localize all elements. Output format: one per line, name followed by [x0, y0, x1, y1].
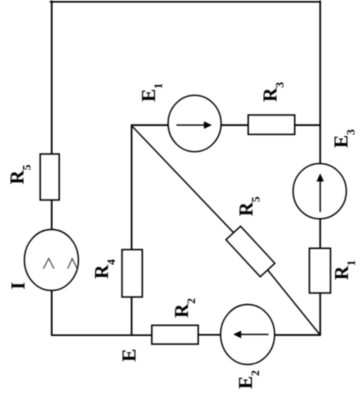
- svg-text:I: I: [9, 282, 30, 290]
- resistor R5 (diagonal): [226, 226, 275, 277]
- resistor R5 (left): [40, 154, 59, 200]
- svg-text:R5: R5: [237, 196, 263, 216]
- wire right upper: [319, 0, 321, 163]
- wire bottom left: [51, 334, 152, 336]
- wire left lower: [51, 291, 53, 336]
- svg-text:E2: E2: [236, 370, 262, 389]
- svg-text:E3: E3: [331, 129, 357, 148]
- resistor R3: [248, 115, 295, 134]
- svg-text:R4: R4: [92, 259, 118, 279]
- source E3 arrow: [319, 180, 321, 213]
- wire E1 to R3: [221, 124, 248, 126]
- wire node to E1: [132, 124, 169, 126]
- ammeter chevron left: [43, 258, 54, 268]
- ammeter chevron right: [68, 259, 78, 269]
- resistor R1: [309, 248, 330, 293]
- source E2 arrow: [239, 333, 269, 335]
- svg-text:R3: R3: [260, 82, 286, 102]
- svg-text:E: E: [120, 349, 141, 362]
- wire bottom right: [275, 334, 321, 336]
- resistor R2: [152, 325, 198, 344]
- wire left middle: [51, 200, 53, 230]
- wire R3 to right: [295, 124, 321, 126]
- wire R4 to bottom: [131, 297, 133, 336]
- svg-text:R1: R1: [332, 260, 358, 280]
- source E2 circle: [221, 305, 275, 365]
- wire right middle: [319, 219, 321, 249]
- wire bottom middle: [198, 334, 221, 336]
- svg-text:E1: E1: [139, 83, 165, 102]
- wire top: [50, 1, 321, 3]
- source E3 circle: [293, 164, 346, 219]
- wire right lower: [319, 293, 321, 335]
- resistor R4: [122, 250, 142, 297]
- wire diagonal upper: [132, 126, 234, 233]
- wire left upper: [51, 0, 53, 154]
- wire middle vertical: [131, 124, 133, 249]
- svg-text:R5: R5: [8, 164, 34, 184]
- source E1 arrow: [176, 124, 205, 126]
- wire diagonal lower: [268, 270, 321, 335]
- svg-text:R2: R2: [172, 298, 198, 318]
- ammeter circle: [24, 230, 78, 291]
- source E1 circle: [168, 95, 221, 151]
